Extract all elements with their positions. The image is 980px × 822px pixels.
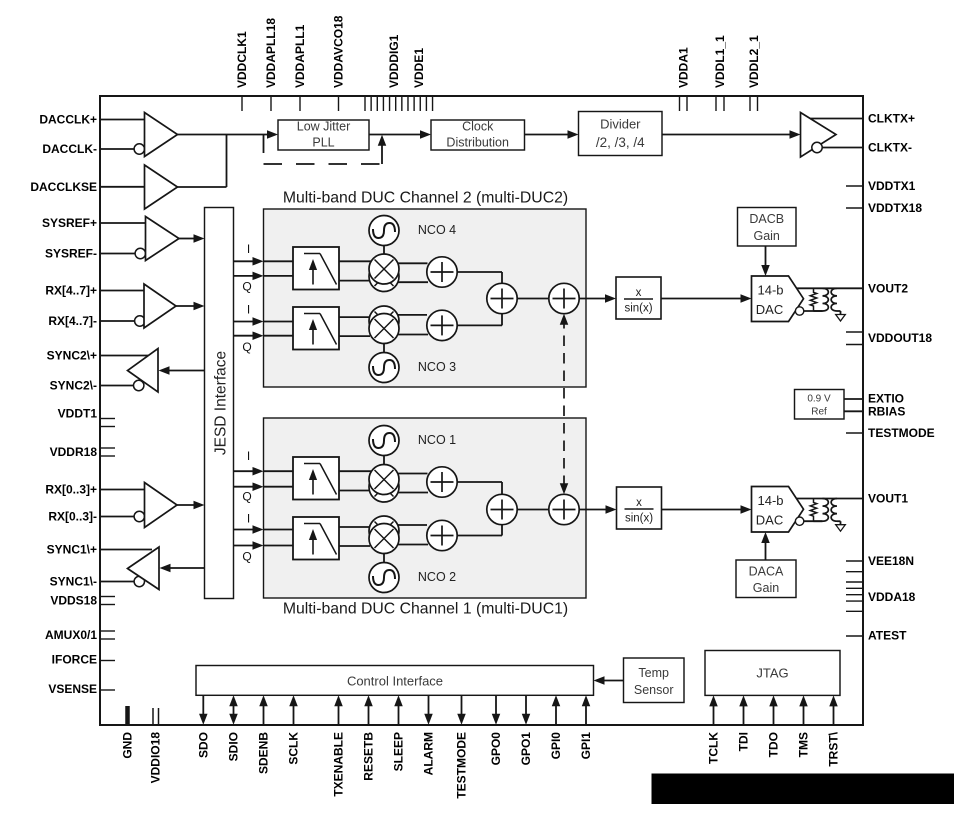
wire RX[4..7] buffer to JESD	[176, 302, 205, 311]
ground	[836, 315, 846, 322]
wire filter to mixer ch1-Q	[264, 527, 372, 546]
svg-text:VDDAPLL1: VDDAPLL1	[293, 24, 307, 88]
svg-text:I: I	[247, 449, 250, 463]
wire transformer secondary bottom	[837, 311, 841, 315]
svg-text:Gain: Gain	[753, 229, 779, 243]
svg-text:EXTIO: EXTIO	[868, 392, 904, 406]
pin VEE18N	[846, 554, 914, 568]
svg-text:I: I	[247, 303, 250, 317]
svg-text:sin(x): sin(x)	[625, 513, 653, 525]
svg-text:VDDTX1: VDDTX1	[868, 179, 916, 193]
pin VDDTX18	[846, 201, 922, 215]
pin VDDA18	[846, 572, 916, 612]
ground	[836, 525, 846, 532]
pin VDDL2_1	[747, 35, 761, 111]
interpolation filter ch1-I	[293, 457, 339, 500]
svg-text:RX[4..7]-: RX[4..7]-	[48, 314, 97, 328]
label I data path	[247, 303, 250, 317]
wire DAC output bottom	[814, 310, 823, 312]
svg-text:AMUX0/1: AMUX0/1	[45, 628, 97, 642]
pin AMUX0/1	[45, 628, 115, 642]
buffer SYNC1 output	[128, 547, 160, 590]
pin ATEST	[846, 629, 907, 643]
NCO 2	[369, 554, 456, 593]
digital supply pin comb	[365, 96, 433, 111]
svg-text:VOUT1: VOUT1	[868, 492, 908, 506]
pin CLKTX-	[812, 141, 912, 155]
pin GPI0	[549, 695, 563, 759]
wire mixer to adder ch2-Q	[398, 315, 429, 335]
label Multi-band DUC Channel 1	[283, 601, 568, 618]
svg-text:RX[4..7]+: RX[4..7]+	[45, 284, 97, 298]
wire PLL to Clock Distribution	[369, 130, 431, 139]
buffer RX[0..3]	[145, 483, 178, 528]
label Multi-band DUC Channel 2	[283, 190, 568, 207]
interpolation filter ch1-Q	[293, 517, 339, 560]
pin VDDDIG1	[387, 34, 401, 88]
svg-text:SDIO: SDIO	[227, 732, 241, 761]
svg-text:Q: Q	[242, 280, 251, 294]
svg-text:SDO: SDO	[196, 732, 210, 758]
pin TESTMODE right	[846, 426, 935, 440]
wire JESD to SYNC2 buffer	[159, 366, 205, 375]
svg-text:Multi-band DUC Channel 1 (mult: Multi-band DUC Channel 1 (multi-DUC1)	[283, 601, 568, 618]
DAC inverted output bubble	[795, 307, 822, 315]
svg-text:Q: Q	[242, 550, 251, 564]
pin ALARM	[422, 695, 436, 775]
adder ch2 combiner	[487, 283, 517, 313]
NCO 1	[369, 426, 456, 465]
adder ch2 output	[549, 283, 579, 313]
wire mixer to adder ch2-I	[398, 263, 429, 282]
label Q data path	[242, 490, 251, 504]
svg-text:SYSREF+: SYSREF+	[42, 216, 97, 230]
buffer CLKTX output	[801, 113, 837, 158]
wire RX[0..3] buffer to JESD	[177, 501, 205, 510]
svg-text:DACCLKSE: DACCLKSE	[30, 180, 97, 194]
pin SLEEP	[392, 695, 406, 771]
svg-text:Divider: Divider	[600, 117, 641, 132]
wire JESD to DUC	[234, 331, 264, 340]
svg-text:GPO0: GPO0	[489, 732, 503, 766]
svg-text:VDDTX18: VDDTX18	[868, 201, 922, 215]
mixer ch1-I	[369, 465, 399, 503]
svg-text:PLL: PLL	[312, 136, 334, 150]
svg-text:SYNC2\+: SYNC2\+	[47, 349, 97, 363]
svg-text:VDDL1_1: VDDL1_1	[713, 35, 727, 88]
svg-text:Clock: Clock	[462, 120, 494, 134]
wire JESD to DUC	[234, 272, 264, 281]
interpolation filter ch2-I	[293, 247, 339, 290]
block JTAG	[705, 651, 840, 696]
wire transformer secondary bottom	[837, 521, 841, 525]
svg-text:NCO 2: NCO 2	[418, 570, 456, 584]
pin GPI1	[579, 695, 593, 759]
svg-text:DACCLK-: DACCLK-	[42, 142, 97, 156]
block DACA Gain	[736, 560, 796, 598]
svg-text:TDO: TDO	[767, 732, 781, 757]
wire combiner to output adder ch2	[517, 298, 548, 300]
wire JESD to DUC	[234, 525, 264, 534]
svg-text:VDDA18: VDDA18	[868, 590, 916, 604]
label Q data path	[242, 550, 251, 564]
wire JESD to SYNC1 buffer	[160, 564, 205, 573]
redacted logo bar	[652, 774, 955, 805]
svg-text:VDDIO18: VDDIO18	[149, 732, 163, 784]
svg-text:SYNC1\+: SYNC1\+	[47, 543, 97, 557]
pin CLKTX+	[811, 112, 916, 126]
adder ch2-Q	[427, 310, 457, 340]
wire filter to mixer ch2-I	[264, 261, 372, 280]
block 0.9 V reference	[795, 390, 845, 420]
pin VDDL1_1	[713, 35, 727, 111]
wire DAC output top	[797, 498, 864, 500]
NCO 4	[369, 216, 456, 255]
svg-text:RX[0..3]-: RX[0..3]-	[48, 510, 97, 524]
svg-text:SDENB: SDENB	[257, 732, 271, 774]
wire ch1 to x/sin(x)	[579, 505, 616, 514]
pin TXENABLE	[332, 695, 346, 796]
pin VDDA1	[676, 47, 690, 111]
wire DAC output bottom	[814, 520, 823, 522]
transformer primary	[823, 499, 829, 522]
wire dashed cross-channel sum	[560, 314, 569, 495]
wire DACA Gain to DAC	[761, 532, 770, 560]
adder ch1 combiner	[487, 494, 517, 524]
svg-text:Control Interface: Control Interface	[347, 674, 443, 689]
svg-text:DACA: DACA	[749, 565, 784, 579]
svg-text:Q: Q	[242, 490, 251, 504]
svg-text:TESTMODE: TESTMODE	[455, 732, 469, 799]
svg-text:0.9 V: 0.9 V	[807, 394, 831, 405]
pin DACCLK+	[39, 113, 144, 127]
wire adder ch1-Q to combiner	[457, 523, 502, 536]
pin RX[0..3]+	[45, 483, 144, 497]
svg-text:SLEEP: SLEEP	[392, 732, 406, 771]
DAC inverted output bubble	[795, 517, 822, 525]
DAC A 14-bit	[752, 487, 804, 533]
wire x/sin(x) to DAC ch2	[661, 294, 752, 303]
label I data path	[247, 512, 250, 526]
pin VDDAPLL18	[264, 18, 278, 111]
mixer ch2-I	[369, 254, 399, 292]
svg-text:Multi-band DUC Channel 2 (mult: Multi-band DUC Channel 2 (multi-DUC2)	[283, 190, 568, 207]
svg-text:GPI0: GPI0	[549, 732, 563, 760]
svg-text:SYSREF-: SYSREF-	[45, 247, 97, 261]
svg-text:RX[0..3]+: RX[0..3]+	[45, 483, 97, 497]
svg-text:VDDAVCO18: VDDAVCO18	[332, 15, 346, 88]
svg-text:DAC: DAC	[756, 302, 783, 317]
pin SYSREF+	[42, 216, 146, 230]
wire adder ch1-I to combiner	[457, 482, 502, 495]
wire filter to mixer ch1-I	[264, 471, 372, 490]
pin GND	[121, 706, 135, 759]
wire Temp Sensor to Control Interface	[594, 676, 624, 685]
pin GPO0	[489, 695, 503, 765]
svg-text:VDDCLK1: VDDCLK1	[235, 31, 249, 88]
svg-text:Distribution: Distribution	[446, 136, 509, 150]
svg-text:GPO1: GPO1	[519, 732, 533, 766]
DAC B 14-bit	[752, 276, 804, 322]
svg-text:CLKTX-: CLKTX-	[868, 141, 912, 155]
wire combiner to output adder ch1	[517, 509, 548, 511]
svg-text:SYNC2\-: SYNC2\-	[50, 379, 97, 393]
adder ch1-I	[427, 467, 457, 497]
pin VDDIO18	[149, 708, 163, 783]
pin VDDS18	[50, 594, 115, 608]
interpolation filter ch2-Q	[293, 307, 339, 350]
pin VDDT1	[58, 407, 115, 427]
pin SYSREF-	[45, 247, 146, 261]
pin VDDOUT18	[846, 331, 932, 345]
svg-text:RESETB: RESETB	[362, 732, 376, 781]
svg-text:JESD Interface: JESD Interface	[213, 351, 230, 455]
svg-text:JTAG: JTAG	[756, 666, 788, 681]
wire filter to mixer ch2-Q	[264, 317, 372, 336]
svg-text:Sensor: Sensor	[634, 683, 674, 697]
svg-text:sin(x): sin(x)	[624, 303, 652, 315]
svg-text:Low Jitter: Low Jitter	[297, 120, 351, 134]
svg-text:Temp: Temp	[638, 666, 669, 680]
pin TDI	[737, 695, 751, 751]
svg-text:DACCLK+: DACCLK+	[39, 113, 97, 127]
block Divider /2 /3 /4	[579, 112, 663, 156]
wire JESD to DUC	[234, 317, 264, 326]
svg-text:VSENSE: VSENSE	[48, 682, 97, 696]
mixer ch2-Q	[369, 306, 399, 344]
wire x/sin(x) to DAC ch1	[662, 505, 752, 514]
block Low Jitter PLL	[278, 120, 369, 151]
svg-text:CLKTX+: CLKTX+	[868, 112, 915, 126]
pin SDIO	[227, 695, 241, 761]
adder ch1-Q	[427, 520, 457, 550]
pin RESETB	[362, 695, 376, 780]
transformer secondary	[831, 288, 837, 311]
wire Divider to CLKTX buffer	[662, 130, 801, 139]
block x/sin(x) ch2	[616, 277, 661, 319]
svg-text:14-b: 14-b	[757, 493, 783, 508]
svg-text:IFORCE: IFORCE	[52, 653, 97, 667]
svg-text:ALARM: ALARM	[422, 732, 436, 775]
svg-text:VOUT2: VOUT2	[868, 282, 908, 296]
wire DACCLKSE buffer to clock line	[178, 135, 227, 188]
buffer SYSREF	[146, 217, 180, 261]
DUC channel 1 block	[264, 418, 587, 598]
pin VOUT2	[868, 282, 908, 296]
DUC channel 2 block	[264, 209, 587, 387]
wire adder ch2-Q to combiner	[457, 313, 502, 325]
svg-text:ATEST: ATEST	[868, 629, 907, 643]
pin IFORCE	[52, 653, 115, 667]
block Temp Sensor	[624, 658, 685, 703]
svg-text:VDDR18: VDDR18	[50, 445, 98, 459]
wire PLL bypass dashed	[264, 135, 387, 165]
pin SDO	[196, 695, 210, 758]
wire mixer to adder ch1-I	[398, 474, 429, 493]
svg-text:Q: Q	[242, 340, 251, 354]
pin SDENB	[257, 695, 271, 774]
svg-text:SYNC1\-: SYNC1\-	[50, 575, 97, 589]
pin VSENSE	[48, 682, 115, 696]
svg-text:VDDDIG1: VDDDIG1	[387, 34, 401, 88]
svg-text:TXENABLE: TXENABLE	[332, 732, 346, 797]
wire SYSREF buffer to JESD	[179, 234, 205, 243]
pin RBIAS	[844, 405, 905, 419]
svg-text:VDDA1: VDDA1	[676, 47, 690, 88]
svg-text:I: I	[247, 512, 250, 526]
svg-text:NCO 3: NCO 3	[418, 360, 456, 374]
pin SYNC1\+	[47, 543, 152, 557]
svg-text:DACB: DACB	[749, 212, 784, 226]
pin TRST\	[827, 695, 841, 766]
block JESD Interface	[205, 208, 234, 599]
wire JESD to DUC	[234, 257, 264, 266]
pin TCLK	[707, 695, 721, 764]
label Q data path	[242, 340, 251, 354]
buffer DACCLKSE input	[145, 165, 178, 209]
pin DACCLK-	[42, 142, 144, 156]
pin GPO1	[519, 695, 533, 765]
pin RX[0..3]-	[48, 510, 144, 524]
transformer primary	[823, 288, 829, 311]
svg-text:SCLK: SCLK	[287, 732, 301, 765]
svg-text:NCO 4: NCO 4	[418, 223, 456, 237]
wire ch2 to x/sin(x)	[579, 294, 616, 303]
svg-text:Gain: Gain	[753, 581, 779, 595]
pin VOUT1	[868, 492, 908, 506]
pin RX[4..7]-	[48, 314, 145, 328]
svg-text:Ref: Ref	[811, 407, 827, 418]
pin TMS	[797, 695, 811, 757]
svg-text:VDDE1: VDDE1	[412, 48, 426, 88]
resistor load	[810, 288, 816, 311]
svg-text:GPI1: GPI1	[579, 732, 593, 760]
wire JESD to DUC	[234, 467, 264, 476]
svg-text:VDDS18: VDDS18	[50, 594, 97, 608]
wire adder ch2-I to combiner	[457, 272, 502, 284]
svg-text:VDDL2_1: VDDL2_1	[747, 35, 761, 88]
svg-text:14-b: 14-b	[757, 283, 783, 298]
svg-text:DAC: DAC	[756, 513, 783, 528]
wire JESD to DUC	[234, 482, 264, 491]
svg-text:/2, /3, /4: /2, /3, /4	[596, 135, 645, 150]
chip boundary	[100, 96, 863, 725]
pin SYNC1\-	[50, 575, 145, 589]
pin EXTIO	[844, 392, 904, 406]
wire DACB Gain to DAC	[761, 246, 770, 276]
svg-text:TDI: TDI	[737, 732, 751, 751]
svg-text:VDDAPLL18: VDDAPLL18	[264, 18, 278, 88]
mixer ch1-Q	[369, 516, 399, 554]
transformer secondary	[831, 499, 837, 522]
svg-text:x: x	[636, 287, 642, 299]
svg-text:VDDT1: VDDT1	[58, 407, 98, 421]
svg-text:VDDOUT18: VDDOUT18	[868, 331, 932, 345]
pin SYNC2\+	[47, 349, 149, 363]
block DACB Gain	[738, 208, 797, 247]
resistor load	[810, 499, 816, 522]
svg-text:NCO 1: NCO 1	[418, 433, 456, 447]
svg-text:VEE18N: VEE18N	[868, 554, 914, 568]
pin VDDCLK1	[235, 31, 249, 111]
label Q data path	[242, 280, 251, 294]
pin VDDTX1	[846, 179, 916, 193]
svg-text:TCLK: TCLK	[707, 732, 721, 764]
buffer SYNC2 output	[128, 349, 159, 393]
svg-text:GND: GND	[121, 732, 135, 759]
pin VDDAVCO18	[332, 15, 346, 111]
pin DACCLKSE	[30, 180, 144, 194]
svg-text:TESTMODE: TESTMODE	[868, 426, 935, 440]
svg-text:TRST\: TRST\	[827, 731, 841, 766]
wire mixer to adder ch1-Q	[398, 525, 429, 545]
block Clock Distribution	[431, 120, 525, 151]
wire clock buffers to PLL	[178, 130, 279, 139]
pin TDO	[767, 695, 781, 757]
label I data path	[247, 242, 250, 256]
svg-text:RBIAS: RBIAS	[868, 405, 905, 419]
NCO 3	[369, 344, 456, 383]
block x/sin(x) ch1	[617, 487, 662, 529]
pin VDDAPLL1	[293, 24, 307, 111]
pin SYNC2\-	[50, 379, 144, 393]
pin SCLK	[287, 695, 301, 764]
wire DAC output top	[797, 287, 864, 289]
adder ch1 output	[549, 494, 579, 524]
svg-text:x: x	[636, 497, 642, 509]
wire JESD to DUC	[234, 541, 264, 550]
buffer DACCLK input	[145, 113, 178, 157]
pin VDDR18	[50, 445, 115, 459]
block Control Interface	[196, 666, 594, 696]
label I data path	[247, 449, 250, 463]
svg-text:TMS: TMS	[797, 732, 811, 757]
wire Clock Distribution to Divider	[525, 130, 579, 139]
adder ch2-I	[427, 257, 457, 287]
pin TESTMODE	[455, 695, 469, 798]
pin VDDE1	[412, 48, 426, 88]
svg-text:I: I	[247, 242, 250, 256]
buffer RX[4..7]	[144, 284, 176, 328]
pin RX[4..7]+	[45, 284, 144, 298]
